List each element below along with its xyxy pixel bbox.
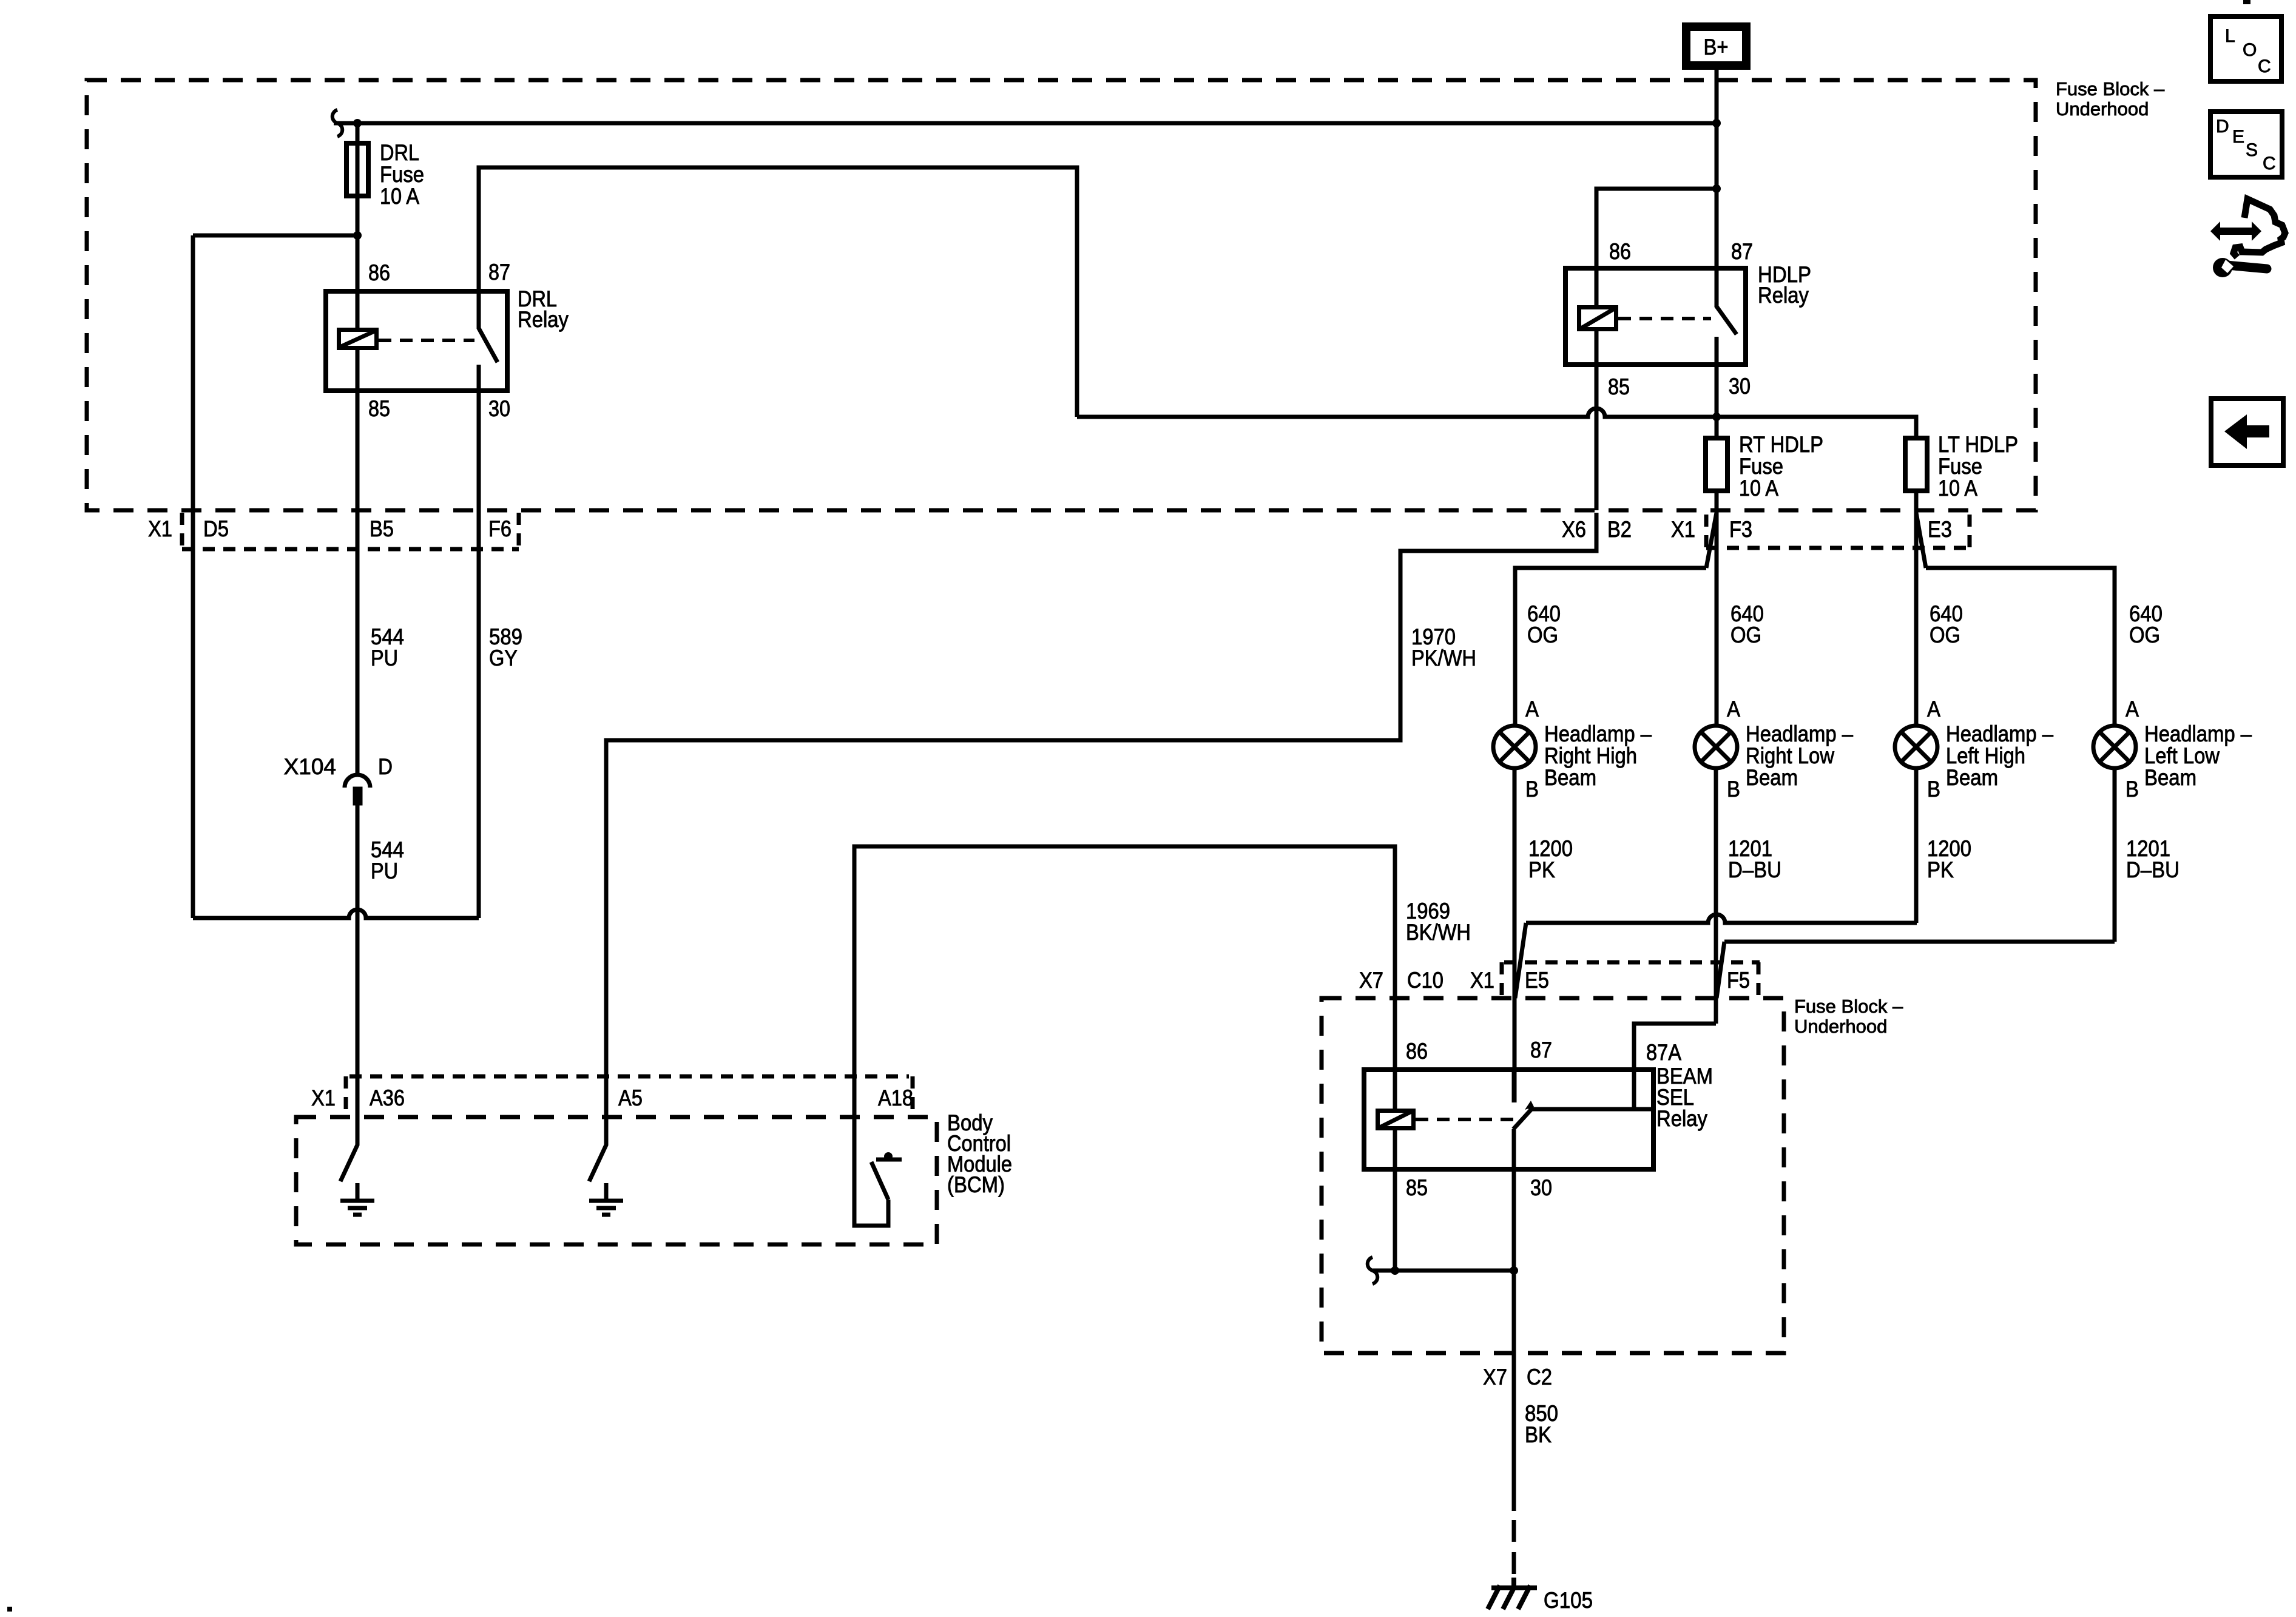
svg-text:B+: B+ <box>1704 35 1729 59</box>
svg-text:86: 86 <box>368 260 390 285</box>
wire right-high B to connector E5 <box>1513 768 1517 1001</box>
fuse LT HDLP Fuse 10A <box>1905 438 1927 491</box>
headlamp right low beam <box>1695 726 1737 768</box>
wire E3 branch slant to left-low <box>1916 513 1926 568</box>
wire D5 column upper <box>191 235 195 552</box>
wire E5 to beam sel relay 87 <box>1513 1001 1517 1102</box>
svg-text:Fuse Block –Underhood: Fuse Block –Underhood <box>1794 996 1903 1037</box>
wire DRL fuse to D5 branch <box>193 234 357 238</box>
wire loop D5 to F6 with hop over 544 PU <box>193 910 479 918</box>
svg-text:A: A <box>1727 697 1740 721</box>
svg-text:F5: F5 <box>1727 968 1750 993</box>
svg-text:A5: A5 <box>618 1085 643 1110</box>
svg-text:X6: X6 <box>1562 517 1586 542</box>
node 85 ground tie <box>1391 1266 1399 1275</box>
svg-text:D: D <box>378 754 393 779</box>
wire BEAM SEL 86 internal <box>1393 998 1397 1169</box>
wire E3 to left-high lamp <box>1914 513 1919 726</box>
svg-text:87: 87 <box>1731 239 1753 264</box>
relay DRL coil <box>339 330 377 348</box>
relay BEAM SEL Relay box <box>1364 1070 1653 1169</box>
svg-text:589GY: 589GY <box>489 624 522 670</box>
icon LOC box <box>2210 16 2281 81</box>
relay BEAM SEL 87A contact line <box>1528 1107 1651 1112</box>
off-page squiggle at DRL fuse feed <box>333 110 343 137</box>
svg-text:30: 30 <box>1530 1175 1552 1200</box>
wire BEAM SEL 85 down <box>1393 1169 1397 1271</box>
node DRL fuse output branch <box>353 231 362 240</box>
relay BEAM SEL actuation dashed link <box>1416 1118 1523 1121</box>
wire HDLP relay 86 feed <box>1596 189 1717 268</box>
svg-text:B: B <box>1525 777 1539 802</box>
wire 544 PU lower (X104 to BCM A36) <box>356 805 360 1117</box>
wire slant join into F5 <box>1717 942 1724 998</box>
svg-text:F6: F6 <box>488 516 512 541</box>
wire 1970 PK/WH B2 to BCM A5 <box>606 513 1596 1117</box>
fuse block underhood (lower) dashed box <box>1322 998 1784 1353</box>
svg-text:640OG: 640OG <box>1730 601 1764 647</box>
headlamp right high beam <box>1493 726 1536 768</box>
icon DESC box <box>2210 112 2282 177</box>
wire 640 OG to right-high lamp <box>1515 568 1706 726</box>
battery terminal B+ <box>1686 27 1746 66</box>
headlamp left low beam <box>2093 726 2136 768</box>
svg-text:A18: A18 <box>878 1085 913 1110</box>
wire 544 PU upper (relay 85 to X104) <box>356 391 360 775</box>
svg-text:X7: X7 <box>1483 1365 1507 1389</box>
wire HDLP relay 30 to node <box>1715 365 1719 436</box>
svg-text:D5: D5 <box>203 516 229 541</box>
fuse block underhood (top) dashed box <box>87 80 2036 510</box>
svg-text:85: 85 <box>1406 1175 1428 1200</box>
svg-text:87: 87 <box>488 260 510 285</box>
wire 1969 BK/WH A18 to C10 <box>854 846 1395 1117</box>
svg-text:30: 30 <box>488 396 510 421</box>
wire DRL relay 86 pin internal <box>356 291 360 391</box>
ground G105 symbol <box>1488 1578 1537 1609</box>
svg-text:B: B <box>1727 777 1740 802</box>
module body control module dashed box <box>296 1117 937 1244</box>
BCM A5 driver switch <box>589 1117 606 1181</box>
node 30 ground tie <box>1510 1266 1518 1275</box>
wire DRL relay 87 output <box>479 167 1077 417</box>
wire right-low B to connector F5 <box>1714 768 1718 1024</box>
svg-text:X7: X7 <box>1359 968 1383 993</box>
relay BEAM SEL switch blade 30-87A with tip <box>1513 1109 1532 1129</box>
svg-text:30: 30 <box>1729 374 1751 399</box>
relay BEAM SEL coil <box>1378 1111 1414 1129</box>
svg-text:B2: B2 <box>1607 517 1632 542</box>
svg-text:C10: C10 <box>1407 968 1443 993</box>
off-page squiggle at ground tie <box>1368 1257 1378 1284</box>
svg-text:D: D <box>2216 116 2229 137</box>
svg-text:86: 86 <box>1406 1039 1428 1064</box>
svg-text:A: A <box>2125 697 2139 721</box>
svg-text:640OG: 640OG <box>2129 601 2163 647</box>
svg-text:X1: X1 <box>1671 517 1695 542</box>
wire slant join into E5 <box>1515 923 1526 998</box>
svg-text:B5: B5 <box>370 516 394 541</box>
svg-text:85: 85 <box>1608 374 1630 399</box>
svg-text:640OG: 640OG <box>1930 601 1963 647</box>
svg-text:X1: X1 <box>311 1085 336 1110</box>
svg-text:G105: G105 <box>1544 1588 1593 1613</box>
svg-text:HDLPRelay: HDLPRelay <box>1758 262 1811 308</box>
relay HDLP coil <box>1579 308 1616 329</box>
wire HDLP relay 86-85 internal <box>1595 268 1599 365</box>
wire F6 column 589 GY <box>477 391 481 918</box>
BCM A18 high-beam request switch <box>854 1117 902 1226</box>
svg-text:S: S <box>2246 140 2258 160</box>
svg-text:X1: X1 <box>148 516 172 541</box>
svg-text:85: 85 <box>368 396 390 421</box>
BCM A36 driver switch <box>340 1117 357 1181</box>
wire DRL fuse vertical <box>356 123 360 291</box>
wire BEAM SEL 87 stationary <box>1512 1070 1516 1102</box>
svg-text:E3: E3 <box>1928 517 1952 542</box>
svg-text:87A: 87A <box>1646 1040 1681 1065</box>
wire F3 to right-low lamp <box>1715 513 1719 726</box>
wire 85 tie to 30 column <box>1373 1269 1514 1273</box>
svg-text:C: C <box>2258 56 2271 76</box>
svg-text:A: A <box>1525 697 1539 721</box>
node headlamp fuse feed <box>1712 413 1721 421</box>
relay DRL actuation dashed link <box>379 339 474 342</box>
fuse RT HDLP Fuse 10A <box>1706 438 1727 491</box>
wire dashed ground lead <box>1512 1520 1516 1578</box>
svg-text:A36: A36 <box>370 1085 405 1110</box>
wire BEAM SEL 30 down to ground node <box>1512 1129 1516 1353</box>
wire left-high B down <box>1914 768 1919 923</box>
inline connector X104 <box>345 775 370 803</box>
headlamp left high beam <box>1895 726 1937 768</box>
icon back arrow box <box>2211 399 2283 465</box>
wire DRL 87 to HDLP 30 node with hop <box>1077 408 1717 417</box>
svg-text:X1: X1 <box>1470 968 1494 993</box>
wire F3 branch slant to right-high <box>1706 513 1717 568</box>
wire D5 column to loop <box>191 552 195 918</box>
relay HDLP actuation dashed link <box>1618 317 1711 320</box>
wire C2 to ground 850 BK <box>1512 1353 1516 1511</box>
relay HDLP switch blade pin87-30 <box>1717 268 1737 365</box>
svg-text:B: B <box>1927 777 1940 802</box>
svg-text:C2: C2 <box>1527 1365 1552 1389</box>
relay HDLP Relay box <box>1565 268 1746 365</box>
wire low-beam join <box>1724 940 2115 944</box>
wire LT fuse feed <box>1717 417 1916 436</box>
svg-text:C: C <box>2263 154 2276 174</box>
wire left-low B down <box>2113 768 2117 942</box>
svg-text:E5: E5 <box>1525 968 1549 993</box>
svg-text:B: B <box>2125 777 2139 802</box>
ground internal at A36 <box>340 1183 374 1215</box>
svg-text:86: 86 <box>1609 239 1631 264</box>
wire HDLP relay 85 to connector B2 <box>1595 365 1599 510</box>
wire F5 step to beam sel relay 87A <box>1634 1024 1716 1109</box>
stray page dot bottom left <box>7 1607 12 1612</box>
svg-text:87: 87 <box>1530 1038 1552 1062</box>
wire LT fuse to connector E3 <box>1914 491 1919 513</box>
connector X1 row E5 F5 <box>1502 962 1760 996</box>
node B+ to HDLP 86 branch <box>1712 184 1721 193</box>
node B+ to DRL fuse branch <box>1712 119 1721 127</box>
svg-text:L: L <box>2225 26 2235 46</box>
svg-text:F3: F3 <box>1729 517 1752 542</box>
svg-text:DRLFuse10 A: DRLFuse10 A <box>380 140 424 209</box>
svg-text:E: E <box>2232 127 2244 147</box>
svg-text:X104: X104 <box>284 754 336 779</box>
relay DRL switch blade pin87-30 <box>479 291 498 391</box>
wire B+ feed vertical <box>1715 68 1719 268</box>
relay DRL Relay box <box>326 291 507 391</box>
wire B+ to DRL fuse horizontal <box>334 121 1717 126</box>
connector X1 row F3 E3 <box>1706 515 1970 548</box>
wire high-beam join with hop <box>1526 914 1917 923</box>
fuse DRL Fuse 10A <box>346 143 368 196</box>
ground internal at A5 <box>589 1183 623 1215</box>
stray page mark top right <box>2243 0 2250 4</box>
svg-text:A: A <box>1927 697 1940 721</box>
svg-text:O: O <box>2243 40 2257 60</box>
svg-text:Fuse Block –Underhood: Fuse Block –Underhood <box>2056 78 2165 120</box>
icon vehicle outline with arrow and wrench <box>2234 199 2285 257</box>
connector X1 row D5 B5 F6 <box>182 513 519 549</box>
wire 640 OG to left-low lamp <box>1926 568 2115 726</box>
connector X1 row A36 A5 A18 <box>346 1076 913 1115</box>
wire RT fuse to connector F3 <box>1715 491 1719 513</box>
svg-text:640OG: 640OG <box>1527 601 1561 647</box>
node DRL fuse top <box>353 119 362 127</box>
